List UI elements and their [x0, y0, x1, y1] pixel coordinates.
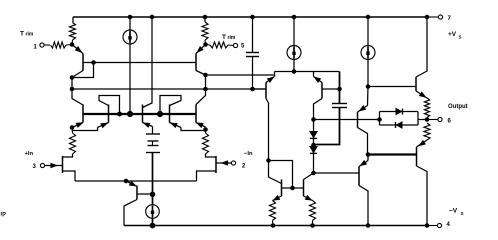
svg-text:+In: +In: [25, 151, 34, 157]
svg-text:Output: Output: [448, 104, 468, 110]
svg-text:קום: קום: [0, 212, 6, 218]
svg-text:rim: rim: [26, 32, 34, 38]
svg-text:S: S: [461, 211, 464, 216]
svg-text:+V: +V: [448, 31, 457, 38]
svg-text:−In: −In: [244, 151, 253, 157]
svg-text:T: T: [222, 34, 226, 41]
svg-text:T: T: [20, 31, 24, 38]
svg-text:−V: −V: [449, 208, 458, 215]
svg-text:S: S: [459, 35, 462, 40]
svg-text:rim: rim: [228, 35, 236, 41]
